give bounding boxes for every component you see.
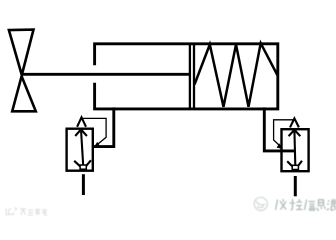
FC1 upper chevron above box — [77, 117, 86, 127]
char 港 — [327, 201, 330, 210]
cylinder body (open at rod entry gap on left wall) — [95, 44, 278, 109]
FC1 exhaust stub below — [82, 174, 85, 195]
butterfly valve V1 (bowtie) bottom triangle — [12, 76, 36, 111]
butterfly valve V1 (bowtie) top triangle — [9, 30, 34, 75]
return spring (zigzag) in right chamber — [195, 43, 278, 107]
watermark logo circle (bottom right) — [254, 197, 267, 210]
FC1 lower chevron below top edge — [75, 129, 87, 136]
FC1 adjustment arrow (thin curved line with arrowhead) — [83, 118, 107, 144]
piston (double line) right line — [193, 44, 195, 109]
FC2 upper chevron above box — [290, 118, 299, 127]
FC1 bottom small box — [80, 165, 86, 169]
piston (double line) left line — [189, 44, 191, 109]
char 控 — [290, 199, 296, 210]
flow control valve FC1 body (left) — [67, 129, 93, 171]
char 息 — [319, 200, 324, 206]
piston rod wire from valve stem to piston — [22, 73, 190, 76]
char 仪 — [276, 200, 278, 211]
FC2 adjustment arrow (thin curved line with arrowhead) — [274, 120, 293, 146]
FC2 arrow shaft — [293, 130, 296, 166]
FC1 bottom V wings — [74, 160, 91, 169]
FC2 bottom V wings — [287, 161, 302, 170]
FC2 bottom small box — [292, 165, 298, 169]
flow control valve FC2 body (right) — [282, 129, 309, 171]
faint watermark bottom-left (logo + text) — [6, 208, 47, 215]
watermark text 仪控信息港 (drawn strokes) — [276, 199, 336, 210]
wire: right port pipe from cylinder bottom to right flow-control valve — [264, 107, 295, 150]
wire: left port pipe from cylinder bottom to left flow-control valve — [92, 107, 114, 146]
char 信 — [305, 200, 307, 211]
FC2 exhaust stub below — [294, 176, 297, 196]
FC1 arrow shaft — [81, 129, 83, 165]
FC2 lower chevron below top edge — [289, 130, 301, 136]
